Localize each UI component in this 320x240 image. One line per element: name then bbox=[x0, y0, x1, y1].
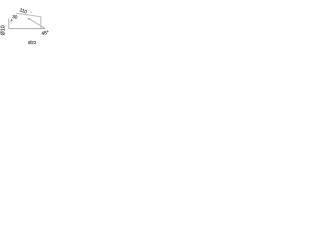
svg-text:Ø22: Ø22 bbox=[28, 40, 37, 45]
wire leader tail below corner arrow bbox=[10, 21, 12, 24]
node arrowhead at diagonal start bbox=[27, 18, 30, 20]
node arrowhead at top-left corner bbox=[10, 19, 13, 22]
wire bottom horizontal edge E3 bbox=[9, 28, 45, 30]
wire diagonal leader D bbox=[29, 19, 45, 29]
wire left vertical edge E4 bbox=[8, 19, 10, 29]
svg-text:45°: 45° bbox=[41, 30, 49, 37]
wire top sloped edge E1 bbox=[16, 13, 41, 16]
wire right vertical edge E2 bbox=[40, 17, 42, 29]
svg-text:Ø10: Ø10 bbox=[0, 25, 6, 35]
node tick right of 110 bbox=[30, 11, 32, 14]
